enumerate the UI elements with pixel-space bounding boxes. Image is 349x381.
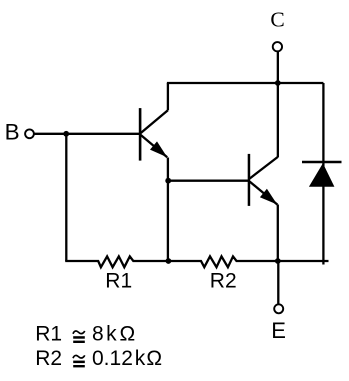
svg-text:R1: R1 [35,322,62,345]
svg-text:R2: R2 [35,347,62,370]
svg-text:C: C [270,8,284,32]
svg-text:R1: R1 [105,269,132,292]
svg-text:Ω: Ω [120,322,136,345]
svg-text:0.12: 0.12 [92,347,133,370]
svg-text:B: B [5,120,20,145]
svg-text:E: E [271,318,286,343]
svg-text:8: 8 [92,322,104,345]
svg-text:k: k [106,322,117,345]
svg-text:R2: R2 [210,269,237,292]
svg-text:k: k [135,347,146,370]
svg-text:Ω: Ω [146,347,162,370]
